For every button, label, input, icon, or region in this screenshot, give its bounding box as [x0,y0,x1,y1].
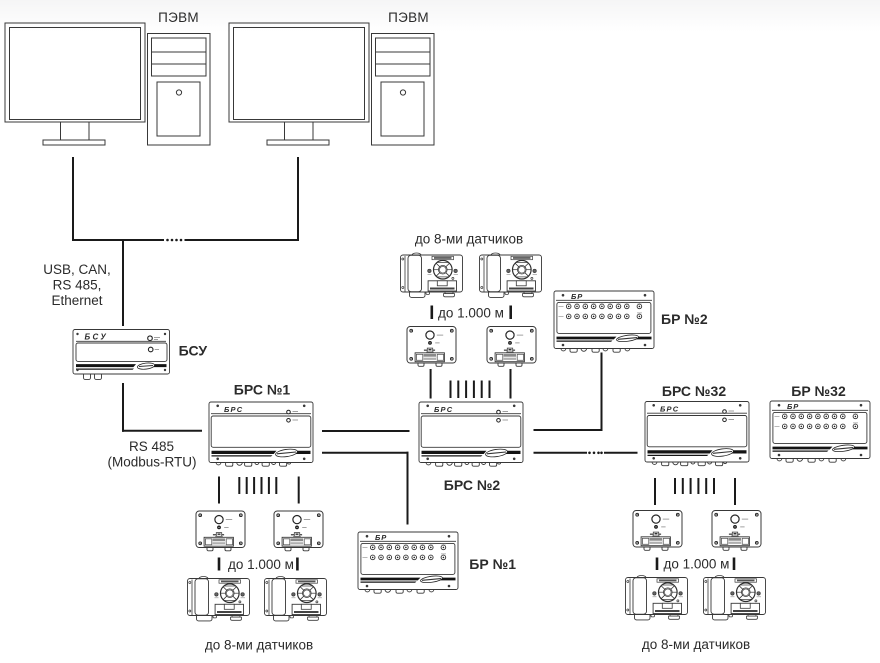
wire pc1 down [72,157,74,241]
svg-text:до 8-ми датчиков: до 8-ми датчиков [642,637,750,652]
svg-text:до 8-ми датчиков: до 8-ми датчиков [205,638,313,653]
svg-text:до 1.000 м: до 1.000 м [438,306,504,321]
computer PC2 [229,23,434,145]
svg-text:до 8-ми датчиков: до 8-ми датчиков [415,232,523,247]
wire bus horizontal left part [72,239,164,241]
svg-text:ПЭВМ: ПЭВМ [158,10,199,25]
sensor S3 [188,577,250,621]
svg-text:ПЭВМ: ПЭВМ [388,10,429,25]
svg-text:до 1.000 м: до 1.000 м [664,557,730,572]
jbox J5 [633,511,682,551]
svg-text:БР №1: БР №1 [469,556,516,572]
sensor S4 [265,577,327,621]
jbox J3 [196,511,245,551]
sensor S2 [480,253,542,297]
device BR32 [770,401,870,462]
sensor S1 [401,253,463,297]
wire bars bottom-right [657,558,734,571]
svg-text:БР №2: БР №2 [661,311,708,327]
dots on pc bus [166,239,182,242]
jbox J2 [487,327,536,367]
svg-text:RS 485: RS 485 [129,439,174,454]
svg-text:USB, CAN,: USB, CAN, [43,262,111,277]
wire bundle hatch (BRS2 inputs) [451,381,490,399]
jbox J4 [274,511,323,551]
wire BRS1 lower bus to BR1 [322,452,409,454]
sensor S6 [704,576,766,620]
jbox J6 [712,511,761,551]
jbox J1 [407,327,456,367]
device BR1 [358,532,458,593]
device BRS32 [645,402,749,466]
wires from PCs [72,157,638,525]
device BRS1 [209,402,313,466]
computer PC1 [5,23,210,145]
wire BRS2 to BRS32 bus [534,452,588,454]
device BRS2 [419,402,523,466]
svg-text:БРС №32: БРС №32 [662,383,726,399]
wire drop to BSU [122,240,124,326]
sensor S5 [626,576,688,620]
svg-text:БРС №2: БРС №2 [444,477,501,493]
wire bus horizontal right part [185,239,300,241]
svg-text:до 1.000 м: до 1.000 м [228,557,294,572]
svg-text:RS 485,: RS 485, [53,278,102,293]
wire pc2 down [297,157,299,241]
wire BSU to bus corner [122,383,124,432]
svg-text:БР №32: БР №32 [791,383,846,399]
device BSU [73,330,170,380]
wire bars bottom-left [219,558,297,571]
svg-text:Ethernet: Ethernet [51,293,102,308]
wire BRS1 sensor lines and bundle [219,477,299,504]
device BR2 [554,291,654,352]
svg-text:БРС №1: БРС №1 [234,382,291,398]
dots on brs bus [588,452,603,455]
wires jbox to BRS2 [431,369,511,399]
wire BRS32 sensor lines and bundle [655,478,735,505]
wire sensor bars [432,306,511,320]
svg-text:БСУ: БСУ [179,343,208,359]
wire BRS2 to BR2 riser [534,429,603,431]
wire BRS1 to BRS2 top bus [322,430,410,432]
svg-text:(Modbus-RTU): (Modbus-RTU) [107,455,196,470]
